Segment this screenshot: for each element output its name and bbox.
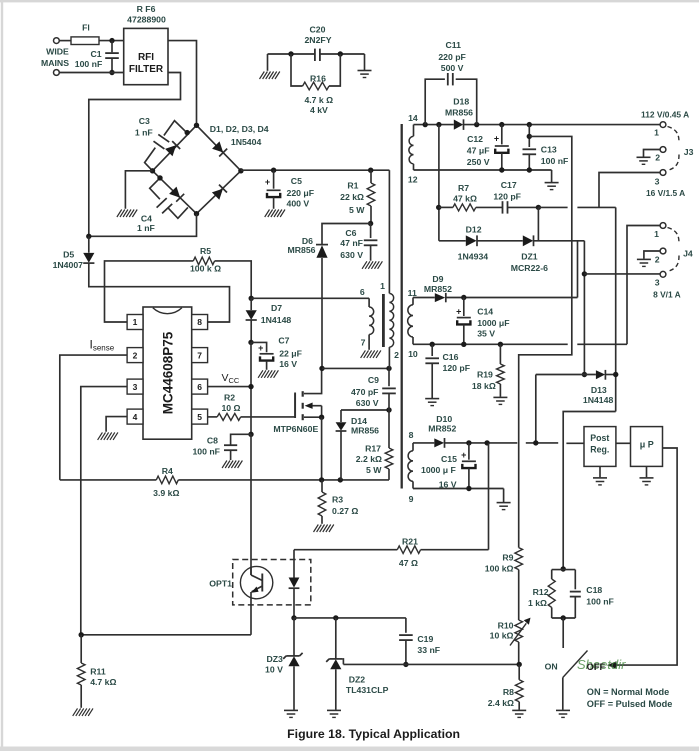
svg-text:100 nF: 100 nF: [192, 447, 220, 457]
svg-text:400 V: 400 V: [287, 199, 310, 209]
svg-text:C19: C19: [417, 634, 433, 644]
ground C16: [425, 399, 439, 406]
wire D6 to drain node: [321, 258, 323, 368]
svg-text:100 nF: 100 nF: [541, 156, 569, 166]
diode D2 bridge upper-right: [212, 141, 227, 156]
svg-text:220 pF: 220 pF: [438, 52, 466, 62]
node D5 top: [86, 234, 91, 239]
svg-text:R4: R4: [162, 466, 173, 476]
svg-text:C14: C14: [477, 306, 493, 316]
wire filter bottom output: [89, 73, 181, 237]
svg-text:J3: J3: [684, 147, 694, 157]
svg-text:MCR22-6: MCR22-6: [511, 263, 548, 273]
capacitor C11: [425, 40, 477, 125]
node C9 bottom junction: [386, 407, 391, 412]
capacitor C19: [399, 618, 440, 665]
ground J4 pin2: [637, 259, 651, 266]
wire R10 to R8: [518, 642, 520, 664]
node C20 right: [338, 51, 343, 56]
diode D18: [445, 96, 473, 130]
svg-text:3: 3: [655, 278, 660, 288]
svg-text:Figure 18. Typical Application: Figure 18. Typical Application: [287, 727, 460, 741]
wire J3 pin2 ground: [644, 150, 661, 157]
svg-text:6: 6: [360, 287, 365, 297]
svg-text:ON: ON: [545, 661, 558, 671]
node DZ2 top: [333, 615, 338, 620]
ground aux winding: [361, 350, 381, 358]
wire bridge edge upper-right: [197, 125, 241, 171]
capacitor C4 loop: [137, 178, 188, 233]
svg-text:100 nF: 100 nF: [586, 596, 614, 606]
svg-text:Fl: Fl: [82, 23, 90, 33]
svg-text:+: +: [494, 134, 499, 144]
ground C8: [222, 461, 242, 469]
svg-text:1: 1: [654, 128, 659, 138]
pin 5 box: [192, 409, 208, 424]
svg-text:C5: C5: [291, 176, 302, 186]
svg-text:R8: R8: [503, 687, 514, 697]
svg-text:R17: R17: [365, 444, 381, 454]
resistor R9: [485, 548, 523, 620]
wire D5 to pin8: [89, 263, 230, 322]
diode D14: [336, 410, 380, 480]
diode D6: [287, 236, 328, 258]
svg-text:OPT1: OPT1: [209, 579, 232, 589]
connector J4 bracket: [668, 228, 693, 272]
optocoupler OPT1 box: [209, 560, 311, 605]
svg-text:+: +: [461, 450, 466, 460]
node C15 bottom: [466, 486, 471, 491]
node drain junction: [319, 366, 324, 371]
svg-text:5 W: 5 W: [366, 465, 382, 475]
wire emitter to R11: [81, 634, 251, 636]
diode D13: [583, 370, 614, 405]
wire Vcc to opto collector: [250, 434, 252, 575]
svg-text:R7: R7: [458, 183, 469, 193]
svg-text:1 nF: 1 nF: [137, 223, 155, 233]
svg-text:μ P: μ P: [640, 440, 654, 450]
node C12 bottom: [499, 167, 504, 172]
node bridge right: [238, 168, 243, 173]
label OFF: [587, 662, 606, 672]
svg-text:+: +: [258, 343, 263, 353]
node C13 bottom: [527, 167, 532, 172]
capacitor C6: [340, 224, 377, 261]
svg-text:D10: D10: [436, 414, 452, 424]
ground R3: [314, 525, 334, 533]
svg-text:14: 14: [408, 113, 418, 123]
svg-text:D18: D18: [453, 96, 469, 106]
node C4 attach: [157, 175, 162, 180]
wire C14 bottom rail: [413, 343, 627, 345]
svg-text:TL431CLP: TL431CLP: [346, 685, 389, 695]
node C15 top: [466, 440, 471, 445]
wire D18 branch down: [438, 125, 440, 241]
node C3 attach: [185, 130, 190, 135]
capacitor C16: [425, 344, 470, 398]
svg-text:MR856: MR856: [351, 425, 379, 435]
wire opto emitter: [250, 592, 252, 635]
node neutral junction: [109, 70, 114, 75]
watermark: [577, 657, 626, 672]
diode D10: [428, 414, 456, 448]
svg-text:47288900: 47288900: [127, 14, 166, 24]
svg-text:16 V: 16 V: [279, 359, 297, 369]
wire D12 anode: [439, 240, 466, 242]
wire D13 left down: [535, 375, 537, 443]
transformer primary winding 1-2: [380, 170, 399, 368]
node C20 left: [288, 51, 293, 56]
wire J4 pin2 ground: [644, 251, 660, 259]
node D14 bottom junction: [338, 477, 343, 482]
wire winding11 to D9: [413, 297, 435, 299]
transistor Q1 MTP6N60E: [273, 368, 321, 434]
svg-text:47 μF: 47 μF: [467, 146, 490, 156]
node C5: [271, 168, 276, 173]
node R21 feed: [484, 440, 489, 445]
ground R19: [493, 397, 507, 404]
svg-text:R F6: R F6: [137, 4, 156, 14]
label WIDE MAINS: [41, 47, 69, 68]
svg-text:+: +: [456, 307, 461, 317]
transformer core bar left: [382, 294, 385, 347]
node R19 top: [498, 342, 503, 347]
svg-text:R5: R5: [200, 246, 211, 256]
svg-text:4.7 k Ω: 4.7 k Ω: [304, 95, 333, 105]
svg-text:C3: C3: [139, 116, 150, 126]
node C8 junction: [248, 432, 253, 437]
svg-text:630 V: 630 V: [356, 398, 379, 408]
svg-text:3: 3: [133, 382, 138, 392]
wire R21 to 8V rail: [488, 443, 490, 550]
node C16 top: [430, 342, 435, 347]
svg-text:C6: C6: [345, 228, 356, 238]
node DZ1 gate junction: [536, 205, 541, 210]
block microprocessor: [631, 427, 663, 467]
wire DZ1 output: [534, 240, 585, 242]
node C12 top: [499, 122, 504, 127]
capacitor C7: [251, 335, 302, 370]
svg-text:1: 1: [133, 317, 138, 327]
capacitor C15: [421, 443, 476, 489]
wire C9 bottom link: [341, 409, 389, 411]
wire crowbar jog: [563, 412, 616, 570]
wire reference line: [343, 663, 519, 665]
wire source down: [321, 417, 323, 480]
ground C6: [362, 261, 382, 269]
diode D9: [424, 274, 452, 302]
svg-text:1 kΩ: 1 kΩ: [528, 598, 547, 608]
capacitor C20: [304, 25, 331, 62]
resistor R2: [208, 393, 241, 421]
svg-text:2: 2: [394, 350, 399, 360]
svg-text:C20: C20: [310, 25, 326, 35]
thyristor DZ1: [511, 207, 548, 273]
wire bridge edge lower-right: [197, 171, 241, 214]
terminal J4 pin3: [655, 271, 666, 287]
svg-text:33 nF: 33 nF: [417, 645, 440, 655]
label D1-D4: [210, 124, 269, 147]
connector J3 bracket: [668, 127, 694, 171]
svg-text:5: 5: [197, 412, 202, 422]
svg-text:OFF = Pulsed Mode: OFF = Pulsed Mode: [587, 699, 673, 709]
label 16V output: [646, 188, 685, 198]
svg-text:8: 8: [409, 430, 414, 440]
resistor R11: [77, 635, 116, 708]
svg-text:C4: C4: [141, 213, 152, 223]
ground post regulator: [593, 466, 607, 485]
wire D7 to C7 node: [250, 320, 252, 342]
node R1 top: [368, 168, 373, 173]
svg-text:47 Ω: 47 Ω: [399, 558, 418, 568]
ground snubber left: [260, 54, 280, 79]
pin 3 box: [127, 379, 143, 394]
ground DZ3: [284, 710, 298, 717]
svg-text:35 V: 35 V: [477, 329, 495, 339]
svg-text:D5: D5: [63, 249, 74, 259]
node C7 branch: [248, 340, 253, 345]
node C14 top: [461, 295, 466, 300]
svg-text:D12: D12: [466, 224, 482, 234]
wire R2 to gate: [241, 394, 295, 417]
transformer secondary winding 8-9: [408, 430, 414, 504]
svg-text:R3: R3: [332, 495, 343, 505]
svg-text:MC44608P75: MC44608P75: [161, 331, 176, 414]
wire filter top output: [168, 41, 197, 126]
svg-text:120 pF: 120 pF: [493, 192, 521, 202]
fuse Fl: [71, 23, 99, 45]
node C13 branch: [527, 134, 532, 139]
diode D4 bridge lower-right: [212, 185, 227, 200]
svg-text:MR856: MR856: [445, 108, 473, 118]
svg-text:R2: R2: [224, 393, 235, 403]
switch arrow: [607, 661, 617, 669]
diode D5: [53, 236, 95, 269]
transformer secondary winding 11-10: [408, 288, 418, 359]
svg-text:7: 7: [197, 350, 202, 360]
wire J3 pin3 down: [599, 173, 660, 208]
resistor R17: [356, 410, 393, 480]
wire neutral to filter: [59, 72, 123, 74]
wire Isense-R4-source rail: [60, 479, 389, 481]
diode D12: [458, 224, 489, 261]
ground snubber right: [358, 54, 372, 78]
svg-text:MR852: MR852: [428, 424, 456, 434]
svg-text:1: 1: [380, 281, 385, 291]
wire uP to mode switch: [617, 448, 678, 665]
capacitor C14: [456, 298, 509, 345]
node D13 anode junction: [582, 372, 587, 377]
svg-text:C17: C17: [501, 180, 517, 190]
wire bridge edge lower-left: [153, 171, 197, 214]
wire main secondary rail: [414, 124, 661, 126]
resistor R1: [340, 170, 375, 223]
wire D9 rail up to crowbar: [577, 241, 579, 298]
svg-text:112 V/0.45 A: 112 V/0.45 A: [641, 109, 689, 119]
svg-text:MAINS: MAINS: [41, 58, 69, 68]
wire crowbar to J4 pin3: [583, 241, 585, 375]
svg-text:2N2FY: 2N2FY: [304, 35, 331, 45]
svg-text:D1, D2, D3, D4: D1, D2, D3, D4: [210, 124, 269, 134]
svg-text:10: 10: [408, 349, 418, 359]
svg-text:9: 9: [409, 494, 414, 504]
wire aux feed: [251, 297, 369, 299]
svg-text:Reg.: Reg.: [590, 445, 609, 455]
ground pin4: [98, 432, 118, 440]
node C11 left: [423, 122, 428, 127]
svg-text:FILTER: FILTER: [129, 64, 164, 75]
ground R8: [512, 710, 526, 717]
svg-text:100 kΩ: 100 kΩ: [485, 564, 514, 574]
svg-text:1000 μ F: 1000 μ F: [421, 465, 456, 475]
svg-text:1N4934: 1N4934: [458, 252, 489, 262]
svg-text:470 pF: 470 pF: [351, 387, 379, 397]
node R1 bottom junction: [368, 221, 373, 226]
svg-text:R10: R10: [498, 621, 514, 631]
svg-text:2: 2: [133, 350, 138, 360]
wire D12 to DZ1: [477, 240, 523, 242]
terminal J4 pin1: [654, 223, 666, 239]
svg-text:2.2 kΩ: 2.2 kΩ: [356, 454, 382, 464]
node live junction: [109, 38, 114, 43]
svg-text:R1: R1: [347, 180, 358, 190]
svg-text:6: 6: [197, 382, 202, 392]
wire post reg to uP: [616, 442, 631, 444]
svg-text:1N4148: 1N4148: [261, 315, 292, 325]
svg-text:120 pF: 120 pF: [443, 363, 471, 373]
node R12 bottom: [561, 615, 566, 620]
svg-text:C9: C9: [368, 375, 379, 385]
label mode legend: [587, 687, 673, 709]
wire D9 rail: [446, 297, 578, 299]
ground DZ2: [327, 710, 341, 717]
svg-text:C15: C15: [441, 454, 457, 464]
svg-text:2: 2: [655, 153, 660, 163]
resistor R4: [153, 466, 179, 498]
svg-text:47 nF: 47 nF: [340, 238, 363, 248]
scan border top edge: [0, 0, 699, 2]
node mosfet source-body: [319, 415, 324, 420]
svg-text:10 V: 10 V: [265, 665, 283, 675]
svg-text:C7: C7: [278, 335, 289, 345]
svg-text:250 V: 250 V: [467, 157, 490, 167]
svg-text:MTP6N60E: MTP6N60E: [273, 424, 318, 434]
zener DZ3: [265, 618, 303, 710]
node D18 anode junction: [436, 122, 441, 127]
svg-text:R12: R12: [533, 587, 549, 597]
svg-text:D13: D13: [591, 385, 607, 395]
scan border bottom strip: [0, 747, 699, 751]
svg-text:RFI: RFI: [138, 52, 154, 63]
diode D1 bridge upper-left: [165, 141, 180, 156]
svg-text:C18: C18: [586, 585, 602, 595]
svg-text:22 kΩ: 22 kΩ: [340, 192, 364, 202]
wire snubber left: [268, 53, 315, 55]
pin 4 box: [127, 409, 143, 424]
resistor R16: [291, 54, 340, 115]
capacitor C12: [467, 125, 509, 170]
node R11 junction: [79, 632, 84, 637]
svg-text:220 μF: 220 μF: [287, 188, 315, 198]
node R12 top: [561, 566, 566, 571]
svg-text:2: 2: [655, 255, 660, 265]
svg-text:4 kV: 4 kV: [310, 105, 328, 115]
terminal J3 pin3: [655, 170, 666, 187]
wire pin6 Vcc: [208, 386, 251, 388]
svg-text:R9: R9: [502, 553, 513, 563]
wire pin4 to ground: [106, 417, 127, 432]
svg-text:C12: C12: [467, 134, 483, 144]
transformer secondary winding 14-12: [408, 113, 418, 185]
transformer core bar main: [401, 124, 403, 489]
IC U1 MC44608P75: [143, 307, 192, 439]
svg-text:3.9 kΩ: 3.9 kΩ: [153, 488, 179, 498]
wire bridge edge upper-left: [153, 125, 197, 171]
ground J3 pin2: [637, 157, 651, 164]
node bridge bottom: [194, 211, 199, 216]
resistor R12 capacitor C18 pair: [528, 570, 614, 618]
wire C13 branch feedback: [519, 136, 572, 547]
diode D3 bridge lower-left: [169, 187, 184, 202]
resistor R7: [439, 183, 477, 211]
svg-text:C16: C16: [443, 352, 459, 362]
capacitor C3 loop: [135, 116, 187, 171]
node C14 bottom: [461, 342, 466, 347]
node D7 junction: [249, 296, 254, 301]
scan border left edge: [1, 0, 3, 747]
capacitor C13: [523, 125, 569, 170]
terminal mains neutral: [54, 70, 60, 76]
svg-text:1N4007: 1N4007: [53, 260, 84, 270]
svg-text:MR852: MR852: [424, 284, 452, 294]
terminal J3 pin1: [654, 122, 666, 138]
svg-text:22 μF: 22 μF: [279, 348, 302, 358]
node R7 left: [436, 205, 441, 210]
svg-text:D7: D7: [271, 303, 282, 313]
svg-text:DZ1: DZ1: [521, 252, 538, 262]
svg-text:5 W: 5 W: [349, 205, 365, 215]
wire pin3 control: [81, 387, 127, 635]
svg-text:630 V: 630 V: [340, 250, 363, 260]
wire D13 line: [536, 374, 616, 376]
svg-text:1N5404: 1N5404: [231, 137, 262, 147]
capacitor C1: [75, 41, 119, 73]
wire bridge bottom return: [89, 214, 197, 237]
wire C17 line to J3: [538, 206, 615, 208]
diode D7: [246, 298, 292, 325]
svg-text:16 V/1.5 A: 16 V/1.5 A: [646, 188, 685, 198]
terminal J3 pin2: [655, 147, 666, 163]
wire J4 pin3: [584, 273, 660, 275]
svg-text:C13: C13: [541, 144, 557, 154]
svg-text:10 Ω: 10 Ω: [221, 403, 240, 413]
wire snubber right: [320, 53, 365, 55]
capacitor C5: [265, 170, 314, 209]
node Vcc junction: [248, 384, 253, 389]
node D13 cathode junction: [613, 372, 618, 377]
svg-text:OFF: OFF: [587, 662, 606, 672]
label Isense: [90, 338, 115, 353]
pin 6 box: [192, 379, 208, 394]
wire J4 pin1: [627, 226, 660, 345]
capacitor C9: [351, 368, 396, 410]
wire winding8 to D10: [413, 442, 434, 444]
capacitor C8: [192, 434, 251, 460]
wire fuse to filter: [99, 40, 124, 42]
svg-text:ON = Normal Mode: ON = Normal Mode: [587, 687, 669, 697]
pin 7 box: [192, 348, 208, 363]
transformer aux winding 6-7: [360, 287, 374, 350]
